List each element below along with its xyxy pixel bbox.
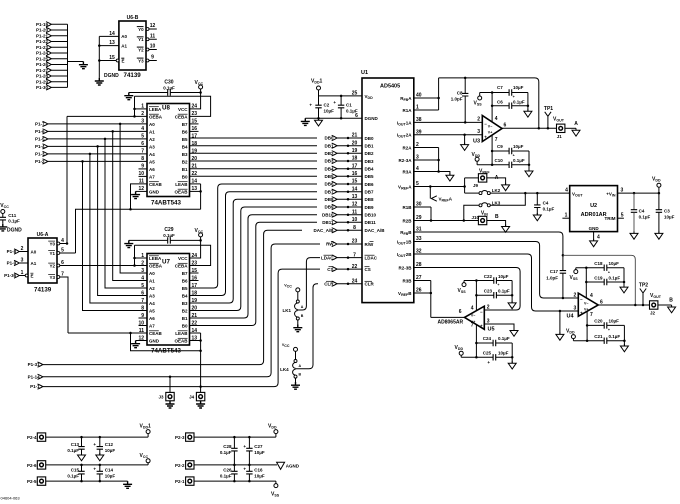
U6-B pin 9 Y3 output stub (146, 59, 149, 62)
svg-text:+: + (513, 154, 515, 158)
svg-text:TP1: TP1 (544, 106, 553, 112)
svg-text:C4: C4 (543, 200, 549, 205)
svg-text:6: 6 (504, 123, 507, 129)
wire DB0 (190, 137, 318, 139)
capacitor C4 0.1uF (U2) (633, 192, 636, 195)
node U7 pin2 tie from Y2 (133, 264, 136, 267)
svg-text:−: − (480, 309, 483, 314)
svg-text:B5: B5 (182, 286, 188, 291)
svg-text:+: + (309, 102, 312, 107)
wire VREFB pin26 (414, 292, 431, 294)
wire RFBB feedback to U4 output (563, 255, 635, 305)
wire U5 pin7 supply stub (475, 324, 477, 343)
ground AGND at A (572, 128, 580, 136)
wire VDD1 to pin 25 (319, 90, 363, 96)
svg-text:B4: B4 (182, 293, 188, 298)
svg-text:U6-B: U6-B (127, 15, 139, 21)
power VSS rail for U3 (479, 93, 481, 97)
svg-text:4: 4 (590, 293, 593, 299)
wire: bus to ground (68, 61, 84, 63)
wire P2-3 to VDD (194, 436, 276, 438)
svg-text:P2-6: P2-6 (27, 463, 37, 468)
wire VCC to pin24 (190, 93, 201, 109)
svg-text:B7: B7 (182, 271, 188, 276)
svg-text:DB9: DB9 (365, 205, 374, 210)
ground U7 pin12 (131, 341, 140, 348)
svg-text:C20: C20 (594, 319, 603, 324)
wire Y1 to U8 A-side enable (60, 252, 76, 254)
svg-text:A7: A7 (149, 174, 155, 179)
U6-B pin 12 Y0 output stub (146, 28, 149, 31)
wire A4 down to U7 (90, 154, 147, 303)
capacitor C16 10uF (248, 465, 250, 471)
ground DGND below C11 (0, 224, 7, 231)
svg-text:C27: C27 (254, 444, 263, 449)
svg-text:B7: B7 (182, 122, 188, 127)
svg-text:3: 3 (574, 306, 577, 312)
wire R1A pin1 tie to feedback (414, 109, 439, 111)
svg-text:3: 3 (621, 188, 624, 194)
U7 NC stub right (190, 272, 199, 274)
svg-text:11: 11 (150, 33, 156, 39)
svg-text:DB3: DB3 (365, 159, 374, 164)
capacitor C21 0.1uF (573, 340, 604, 342)
wire R2-3A pin3 (414, 159, 439, 161)
svg-text:A5: A5 (149, 159, 155, 164)
ground bar DGND (301, 118, 310, 125)
ground LK4 (291, 382, 300, 389)
wire LK3 right (490, 193, 525, 205)
svg-text:U4: U4 (567, 313, 575, 319)
capacitor C3 10uF (658, 193, 660, 210)
svg-text:6: 6 (600, 299, 603, 305)
wire J1 to A terminal (565, 127, 576, 129)
capacitor C28 0.1uF (233, 437, 235, 448)
svg-text:0.1µF: 0.1µF (609, 334, 621, 339)
wire P1-2 to U8 A5 (48, 160, 147, 162)
SECTION A: top-left connector fan P1-19..P1-30 (36, 22, 88, 90)
node U7 loop junction (199, 350, 202, 353)
svg-text:LK4: LK4 (280, 367, 289, 372)
svg-text:11: 11 (352, 209, 358, 215)
svg-text:Y0: Y0 (49, 241, 55, 246)
wire DB10 (190, 215, 318, 318)
svg-text:C12: C12 (105, 442, 114, 447)
svg-text:AGND: AGND (286, 463, 300, 468)
svg-text:U5: U5 (488, 326, 495, 332)
test point TP1 (545, 112, 551, 129)
capacitor C27 10uF (248, 437, 250, 448)
svg-text:24: 24 (352, 278, 358, 284)
svg-text:4: 4 (141, 275, 144, 281)
svg-text:B3: B3 (182, 152, 188, 157)
svg-text:R2-3A: R2-3A (398, 158, 412, 163)
svg-text:7: 7 (353, 252, 356, 258)
wire P2-1 to VSS (194, 480, 276, 482)
wire P1-24 to bus (51, 52, 67, 54)
SECTION C: U8 latch (35, 79, 211, 310)
svg-text:DB6: DB6 (365, 182, 374, 187)
wire P1-19 to bus (51, 23, 67, 25)
svg-text:A3: A3 (149, 293, 155, 298)
wire A0 down to U7 (120, 124, 147, 273)
capacitor C12 10uF (99, 437, 101, 447)
svg-text:4: 4 (597, 235, 600, 241)
wire IOUT1B to U4 inverting input (414, 242, 579, 299)
wire LK2 to VREF node (490, 192, 569, 194)
svg-text:15: 15 (352, 179, 358, 185)
capacitor C30 0.1uF (168, 89, 171, 95)
wire P1-22 to bus (51, 41, 67, 43)
svg-text:+: + (608, 270, 610, 274)
svg-text:20: 20 (352, 140, 358, 146)
wire U7 LEBA pin1 (135, 257, 148, 259)
ground J4 (196, 401, 205, 408)
node Y0 junction (66, 242, 69, 245)
svg-text:10µF: 10µF (664, 215, 675, 220)
U8 pin 16 NC stub (190, 130, 199, 132)
ground for C29 (124, 240, 133, 247)
svg-text:U6-A: U6-A (37, 232, 49, 238)
U2 +VIN pin3 to VDD (618, 192, 659, 194)
svg-text:7: 7 (141, 298, 144, 304)
wire RFBA feedback top (439, 78, 539, 128)
svg-text:B2: B2 (182, 308, 188, 313)
wire DB8 (190, 199, 318, 303)
svg-text:2: 2 (21, 246, 24, 252)
svg-text:U7: U7 (162, 259, 170, 266)
svg-text:A4: A4 (149, 152, 155, 157)
svg-text:B0: B0 (182, 323, 188, 328)
svg-text:R2B: R2B (402, 218, 412, 223)
SECTION B: U6-B decoder (95, 15, 157, 85)
node J3 tap (169, 376, 172, 379)
wire IOUT1A pin38 to U3 (414, 121, 483, 123)
capacitor C29 0.1uF (168, 237, 171, 243)
voltage reference U2 ADR01AR (570, 186, 618, 232)
ground AGND at B (668, 305, 676, 313)
U6-A pin 4 Y0 output (57, 242, 60, 245)
svg-text:A0: A0 (31, 249, 37, 254)
svg-text:B3: B3 (182, 301, 188, 306)
node U8 enable loop branch (129, 208, 132, 211)
svg-text:2: 2 (477, 117, 480, 123)
node: U6-B A1 junction (98, 44, 101, 47)
wire C29 rail (129, 239, 168, 241)
SECTION H: U3 area (439, 77, 580, 177)
wire R2A/R2-3A/R3A tie (438, 148, 440, 172)
U2 TRIM pin5 stub (618, 217, 624, 219)
svg-text:VCC: VCC (178, 256, 188, 261)
svg-text:17: 17 (192, 134, 198, 140)
svg-text:7: 7 (495, 137, 498, 143)
wire U5 output to R3B/VREFB (431, 316, 465, 318)
node VCC junction U7 (199, 239, 202, 242)
decoder U6-A 74139 (28, 238, 57, 283)
wire U8 OEBA pin2 from Y0 riser (67, 115, 147, 117)
svg-text:OEBA: OEBA (149, 263, 163, 268)
svg-text:2: 2 (487, 305, 490, 311)
svg-text:10µF: 10µF (513, 85, 524, 90)
wire P1-30 to bus (51, 86, 67, 88)
svg-text:B5: B5 (182, 137, 188, 142)
U6-A pin 7 Y3 output (57, 276, 60, 279)
capacitor C25 10uF (461, 356, 493, 358)
svg-text:C21: C21 (594, 334, 603, 339)
svg-text:19: 19 (352, 148, 358, 154)
svg-text:DGND: DGND (365, 116, 379, 121)
wire P1-21 to bus (51, 35, 67, 37)
svg-text:P2-2: P2-2 (175, 463, 185, 468)
wire P2-6 to VCC (46, 464, 148, 466)
wire IOUT2A pin39 to U3 (414, 134, 483, 136)
wire VDD caps to AGND (528, 151, 530, 171)
svg-text:0.1µF: 0.1µF (639, 215, 651, 220)
svg-text:1: 1 (21, 270, 24, 276)
wire: U6-B input tie vertical (98, 36, 100, 77)
SECTION D: U6-A + C11 (0, 116, 147, 333)
ground J3 (166, 401, 175, 408)
svg-text:+: + (513, 95, 515, 99)
wire P1-29 to bus (51, 81, 67, 83)
node A3 branch (96, 145, 99, 148)
node A2 branch (104, 138, 107, 141)
svg-text:10µF: 10µF (324, 109, 335, 114)
node U7 pin13 tie (199, 339, 202, 342)
svg-text:A: A (574, 121, 578, 127)
svg-text:10µF: 10µF (254, 450, 265, 455)
svg-text:LDAC: LDAC (365, 256, 378, 261)
svg-text:+: + (480, 323, 483, 328)
svg-text:P2-5: P2-5 (27, 479, 37, 484)
svg-text:0.1µF: 0.1µF (67, 448, 79, 453)
svg-text:J10: J10 (471, 215, 479, 220)
wire U7 GND pin12 (136, 340, 147, 342)
node A5 branch (81, 160, 84, 163)
svg-text:0.1µF: 0.1µF (543, 206, 555, 211)
svg-text:DB10: DB10 (365, 213, 377, 218)
ground bar P2-5 (123, 481, 132, 488)
svg-text:74139: 74139 (124, 72, 142, 79)
svg-text:OEBA: OEBA (149, 114, 163, 119)
wire U8 CEAB pin11 to enable loop (131, 184, 148, 209)
power VSS rail for U5 (463, 281, 465, 283)
svg-text:C10: C10 (495, 158, 504, 163)
svg-text:GND: GND (149, 189, 160, 194)
capacitor C18 10uF (576, 267, 604, 269)
node U8 pin2 tie (133, 115, 136, 118)
svg-text:0.1µF: 0.1µF (498, 289, 510, 294)
svg-text:DGND: DGND (7, 228, 22, 234)
svg-text:4: 4 (495, 116, 498, 122)
svg-text:0.1µF: 0.1µF (609, 275, 621, 280)
svg-text:10µF: 10µF (105, 473, 116, 478)
svg-text:R3B: R3B (402, 278, 412, 283)
svg-text:A2: A2 (149, 286, 155, 291)
svg-text:B4: B4 (182, 144, 188, 149)
svg-text:TRIM: TRIM (605, 216, 616, 221)
svg-text:0.1µF: 0.1µF (513, 158, 525, 163)
svg-text:DB4: DB4 (365, 167, 374, 172)
svg-text:C16: C16 (254, 468, 263, 473)
capacitor C26 0.1uF (233, 465, 235, 471)
wire R2B pin29 to LK3/J10 (414, 220, 464, 222)
svg-text:B: B (299, 373, 302, 377)
svg-text:C23: C23 (484, 289, 493, 294)
svg-text:5: 5 (621, 213, 624, 219)
svg-text:OEAB: OEAB (174, 338, 188, 343)
power VCC for U8 (199, 85, 203, 89)
U6-B pin 15 E (99, 60, 116, 62)
U6-B pin 14 A0 (99, 35, 119, 37)
node: U6-B E junction (98, 59, 101, 62)
capacitor C11 0.1uF (0, 217, 6, 220)
wire U7 CEAB pin11 from Y3 (68, 332, 147, 334)
svg-text:LK1: LK1 (282, 308, 291, 313)
svg-text:18: 18 (352, 156, 358, 162)
SECTION K: U4 area (414, 232, 676, 352)
svg-text:4: 4 (565, 188, 568, 194)
svg-text:3: 3 (477, 129, 480, 135)
U6-A pin 6 Y2 output (57, 264, 60, 267)
svg-text:0.1µF: 0.1µF (67, 473, 79, 478)
svg-text:AD8065AR: AD8065AR (438, 320, 464, 326)
svg-text:12: 12 (352, 202, 358, 208)
svg-text:J9: J9 (473, 183, 479, 188)
svg-text:0.1µF: 0.1µF (163, 233, 175, 238)
wire P2-4 to VDD1 (46, 436, 148, 438)
node U8 pin13 tie (199, 190, 202, 193)
svg-text:+: + (484, 134, 487, 139)
svg-text:V+: V+ (488, 131, 493, 135)
svg-text:R/W: R/W (365, 242, 375, 247)
ground LK1 (293, 325, 302, 332)
node U7 pin1 tie (133, 257, 136, 260)
svg-text:DB5: DB5 (365, 174, 374, 179)
wire P2-5 to DGND (46, 480, 128, 482)
svg-text:0.1µF: 0.1µF (220, 450, 232, 455)
wire DB5 (190, 175, 318, 177)
svg-text:C7: C7 (497, 85, 503, 90)
svg-text:C17: C17 (550, 269, 559, 274)
svg-text:12: 12 (150, 23, 156, 29)
node U8 pin1 tie (133, 108, 136, 111)
svg-text:10: 10 (150, 44, 156, 50)
power VSS rail for U4 (575, 268, 577, 270)
svg-text:C14: C14 (105, 468, 114, 473)
wire P1-20 to bus (51, 29, 67, 31)
svg-text:A: A (495, 175, 499, 181)
wire P1-14 to R/W (43, 244, 320, 377)
svg-text:A2: A2 (149, 137, 155, 142)
wire J10 to AGND (487, 221, 506, 227)
svg-text:9: 9 (151, 55, 154, 61)
capacitor C23 0.1uF (476, 294, 493, 296)
U7 NC stub right (190, 280, 199, 282)
wire U5 pin4 supply stub (475, 295, 477, 311)
link LK3 (479, 204, 482, 207)
svg-text:1.0pF: 1.0pF (546, 276, 558, 281)
svg-text:LK2: LK2 (492, 188, 501, 193)
svg-text:C22: C22 (484, 274, 493, 279)
svg-text:C9: C9 (497, 144, 503, 149)
svg-text:0.1µF: 0.1µF (163, 85, 175, 90)
svg-text:DB2: DB2 (365, 151, 374, 156)
ground AGND symbol (277, 462, 285, 469)
svg-text:23: 23 (352, 239, 358, 245)
wire R3B pin27 (414, 280, 431, 282)
capacitor C17 1.0pF (562, 255, 564, 270)
capacitor C4 0.1uF (VREF) (536, 193, 538, 205)
svg-text:DB8: DB8 (365, 197, 374, 202)
connector J9 (478, 174, 486, 182)
wire U4 VDD caps to AGND (623, 325, 625, 346)
svg-text:R2-3B: R2-3B (398, 265, 412, 270)
capacitor C24 0.1uF (476, 342, 493, 344)
svg-text:A1: A1 (121, 43, 127, 48)
svg-text:J2: J2 (650, 311, 656, 316)
svg-text:Y3: Y3 (138, 58, 144, 63)
wire U8 OEAB pin13 (190, 190, 201, 192)
svg-text:C2: C2 (324, 103, 330, 108)
wire U8 enable loop bottom from Y1 (76, 209, 201, 253)
svg-text:C4: C4 (639, 209, 645, 214)
node C1 top (340, 95, 343, 98)
wire P1-4 to U8 A3 (48, 145, 147, 147)
capacitor C22 10uF (464, 280, 494, 282)
svg-text:AD5405: AD5405 (380, 84, 400, 90)
wire U4 VSS caps to AGND (623, 268, 625, 287)
svg-text:18: 18 (192, 141, 198, 147)
svg-text:Y1: Y1 (138, 37, 144, 42)
node A4 branch (89, 153, 92, 156)
wire R3B/VREFB tie to U5 output (430, 281, 432, 318)
ground DGND for U6-B inputs (95, 78, 104, 85)
wire U5 VSS caps to AGND (511, 281, 513, 303)
svg-text:DB1: DB1 (365, 144, 374, 149)
svg-text:V−: V− (584, 301, 589, 305)
svg-text:C1: C1 (346, 103, 352, 108)
svg-text:B6: B6 (182, 129, 188, 134)
node CS tap (199, 385, 202, 388)
ground U8 pin12 (131, 191, 140, 198)
test point TP2 (640, 289, 646, 306)
svg-text:R1A: R1A (402, 108, 412, 113)
node A0 branch (119, 123, 122, 126)
wire DB7 (190, 192, 318, 296)
svg-text:A5: A5 (149, 308, 155, 313)
svg-text:21: 21 (352, 133, 358, 139)
latch U8 74ABT543 (147, 104, 190, 197)
wire P1-6 to U8 A1 (48, 130, 147, 132)
wire C30 rail (129, 92, 168, 94)
svg-text:Y3: Y3 (49, 275, 55, 280)
wire U4 +input to AGND (559, 311, 561, 334)
capacitor C9 10uF (492, 150, 509, 152)
svg-text:B: B (669, 298, 673, 304)
wire A2 down to U7 (105, 139, 147, 288)
link LK2 (465, 192, 479, 194)
svg-text:14: 14 (352, 186, 358, 192)
SECTION J: U5 area (414, 268, 520, 370)
wire RFBB to C17 node (414, 232, 563, 255)
svg-text:A7: A7 (149, 323, 155, 328)
svg-text:B6: B6 (182, 278, 188, 283)
wire J9 to AGND (487, 178, 506, 185)
svg-text:V−: V− (488, 124, 493, 128)
svg-text:CEBA: CEBA (175, 263, 189, 268)
svg-text:Y0: Y0 (138, 27, 144, 32)
